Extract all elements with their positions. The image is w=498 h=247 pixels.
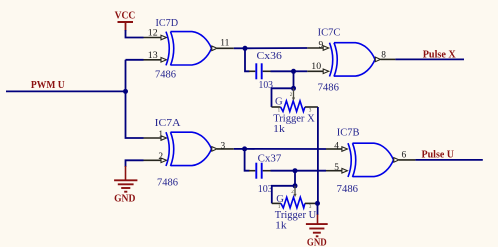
wire node B down to node C: [293, 71, 295, 88]
xor gate IC7B: [326, 128, 415, 195]
node PWM U junction: [123, 89, 128, 94]
ground GND left: [114, 166, 137, 204]
pin 4: [326, 148, 342, 150]
svg-text:7486: 7486: [155, 70, 176, 81]
svg-text:10: 10: [311, 62, 321, 72]
svg-text:4: 4: [334, 141, 339, 151]
wire Cx36 to node B: [271, 70, 294, 72]
svg-text:2: 2: [158, 152, 163, 162]
xor gate IC7D: [144, 18, 234, 81]
wire Cx37 to node E: [271, 170, 296, 172]
pin 13: [144, 59, 162, 61]
svg-text:Pulse U: Pulse U: [422, 148, 455, 160]
wire node E down to node F: [294, 171, 296, 186]
wire node E to pin 5: [295, 170, 326, 172]
output triangle pin 6: [394, 158, 399, 163]
wire out11 to node A: [234, 47, 245, 49]
svg-text:1k: 1k: [273, 124, 285, 135]
gate body IC7B: [348, 143, 351, 177]
xor gate IC7C: [307, 28, 395, 94]
wire pin13 stub: [126, 59, 144, 61]
pin 1: [144, 137, 162, 139]
svg-text:11: 11: [220, 39, 229, 49]
svg-text:GND: GND: [307, 236, 327, 247]
capacitor Cx36: [249, 51, 282, 91]
wire PWM U horizontal: [6, 90, 126, 92]
output triangle pin 3: [212, 147, 217, 152]
wire node B to pin 10: [294, 70, 308, 72]
pin 5: [326, 170, 342, 172]
gate body IC7A: [166, 132, 169, 166]
gate body IC7D: [166, 32, 169, 66]
svg-text:IC7D: IC7D: [156, 18, 179, 29]
power VCC: [115, 10, 136, 31]
xor gate IC7A: [144, 118, 234, 188]
wire VCC to pin12: [126, 30, 144, 38]
capacitor Cx37: [249, 154, 281, 195]
svg-text:IC7A: IC7A: [155, 118, 181, 129]
ground GND right: [306, 203, 328, 247]
wire node A down to Cx36: [245, 48, 250, 71]
resistor trimmer G Trigger U: [272, 186, 318, 232]
wire loop U left: [272, 186, 295, 204]
pin 2: [144, 159, 162, 161]
svg-text:3: 3: [221, 141, 226, 151]
svg-text:Trigger X: Trigger X: [273, 113, 315, 124]
node GND junction Trigger U right: [315, 201, 320, 206]
wiper pin 2: [293, 88, 295, 97]
wiper pin 2: [294, 186, 296, 194]
svg-text:VCC: VCC: [115, 10, 136, 22]
svg-text:5: 5: [334, 163, 339, 173]
pin 9: [307, 47, 323, 49]
svg-text:Pulse X: Pulse X: [423, 49, 456, 61]
svg-text:9: 9: [319, 40, 324, 50]
node D: [242, 146, 247, 151]
svg-text:PWM U: PWM U: [31, 79, 65, 91]
wire Pulse U: [415, 159, 482, 161]
wire trunk vertical pin13 to pin1: [126, 60, 144, 138]
wire out3 to node D: [234, 148, 245, 150]
svg-text:Cx36: Cx36: [257, 51, 282, 62]
svg-text:G: G: [276, 194, 284, 205]
svg-text:Trigger U: Trigger U: [275, 210, 317, 221]
node C loop X node: [291, 86, 296, 91]
svg-text:1k: 1k: [275, 221, 287, 232]
wire node D to pin 4: [245, 148, 326, 150]
svg-text:GND: GND: [114, 192, 135, 204]
wire node A to pin 9: [245, 47, 307, 49]
svg-text:7486: 7486: [157, 177, 178, 188]
pin 10: [307, 70, 323, 72]
node E pin5 node: [293, 168, 298, 173]
output bubble triangle pin 11: [212, 46, 217, 51]
gate body IC7C: [330, 43, 333, 77]
svg-text:13: 13: [148, 51, 158, 61]
svg-text:12: 12: [148, 29, 158, 39]
wire loop X left: [272, 88, 294, 107]
svg-text:G: G: [275, 97, 283, 108]
svg-text:Cx37: Cx37: [258, 154, 282, 165]
svg-text:7486: 7486: [337, 184, 358, 195]
svg-text:1: 1: [158, 130, 163, 140]
output triangle pin 8: [375, 57, 380, 62]
svg-text:7486: 7486: [318, 82, 339, 93]
svg-text:6: 6: [402, 150, 407, 160]
wire node D down to Cx37: [245, 149, 250, 171]
svg-text:IC7C: IC7C: [318, 28, 341, 39]
wire Pulse X: [395, 58, 464, 60]
svg-text:IC7B: IC7B: [337, 128, 360, 139]
svg-text:103: 103: [258, 184, 273, 195]
resistor trimmer G Trigger X: [272, 88, 318, 135]
svg-text:8: 8: [381, 51, 386, 61]
pin 12: [144, 37, 162, 39]
wire pin2 to GND: [126, 160, 144, 167]
wire Trigger X right down to GND node: [317, 107, 319, 204]
node B pin10 node: [291, 69, 296, 74]
node F loop U node: [293, 183, 298, 188]
node A: [243, 46, 248, 51]
